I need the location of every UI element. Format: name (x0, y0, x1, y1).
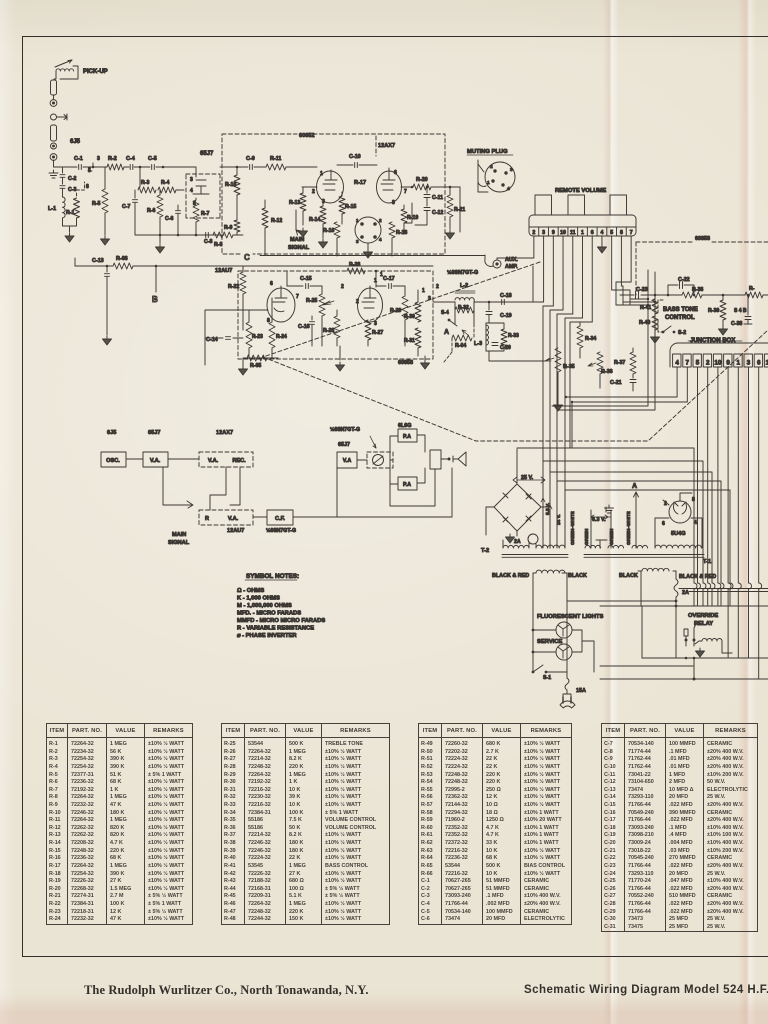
svg-text:SIGNAL: SIGNAL (288, 245, 310, 251)
svg-text:R-26: R-26 (323, 328, 334, 334)
svg-text:V.A.: V.A. (208, 458, 219, 464)
svg-text:GREEN: GREEN (584, 528, 589, 545)
svg-text:L-1: L-1 (48, 206, 56, 212)
svg-text:65J7: 65J7 (338, 442, 350, 448)
svg-text:A: A (632, 483, 637, 490)
svg-text:C-16: C-16 (298, 324, 310, 330)
svg-text:S-4: S-4 (441, 310, 449, 316)
svg-text:BLACK & RED: BLACK & RED (679, 574, 716, 580)
svg-text:11: 11 (570, 230, 576, 236)
svg-text:S-1: S-1 (543, 675, 551, 681)
svg-text:K - 1,000 OHMS: K - 1,000 OHMS (237, 596, 280, 602)
svg-text:⌀ - PHASE INVERTER: ⌀ - PHASE INVERTER (237, 633, 297, 639)
svg-text:C.F.: C.F. (275, 516, 285, 522)
svg-text:R-: R- (749, 286, 755, 292)
svg-text:R-3: R-3 (141, 180, 149, 186)
svg-text:2A: 2A (682, 590, 689, 596)
svg-text:65J7: 65J7 (200, 151, 214, 157)
svg-text:C-3: C-3 (68, 187, 76, 193)
svg-text:A: A (444, 329, 449, 336)
svg-text:R-33: R-33 (508, 333, 519, 339)
svg-text:2: 2 (341, 284, 344, 290)
svg-text:PICK-UP: PICK-UP (83, 69, 108, 75)
svg-text:R-37: R-37 (614, 360, 625, 366)
svg-text:C: C (244, 253, 250, 262)
svg-text:7: 7 (404, 189, 407, 195)
svg-text:7: 7 (686, 360, 690, 367)
svg-text:R-32: R-32 (458, 305, 469, 311)
svg-text:T-1: T-1 (703, 559, 711, 565)
svg-text:R-34: R-34 (585, 336, 596, 342)
svg-text:4: 4 (675, 360, 679, 367)
svg-text:R-13: R-13 (289, 200, 300, 206)
svg-text:R: R (205, 516, 209, 522)
svg-text:C-6: C-6 (165, 216, 173, 222)
svg-text:MAIN: MAIN (290, 237, 304, 243)
svg-text:R-28: R-28 (349, 262, 360, 268)
svg-text:MMFD - MICRO MICRO FARADS: MMFD - MICRO MICRO FARADS (237, 618, 325, 624)
svg-text:10: 10 (560, 230, 566, 236)
svg-text:R-16: R-16 (323, 228, 334, 234)
svg-text:4: 4 (190, 188, 193, 194)
svg-text:R-17: R-17 (354, 180, 366, 186)
svg-text:OSC.: OSC. (106, 458, 120, 464)
svg-text:Ω - OHMS: Ω - OHMS (237, 588, 264, 594)
svg-text:R-7: R-7 (201, 211, 209, 217)
svg-text:C-8: C-8 (204, 239, 212, 245)
svg-text:6: 6 (662, 521, 665, 527)
svg-text:R-39: R-39 (708, 308, 719, 314)
svg-text:C-2: C-2 (68, 176, 76, 182)
svg-text:2: 2 (436, 284, 439, 290)
svg-text:½6SN7GT-G: ½6SN7GT-G (266, 527, 296, 534)
svg-text:R-25: R-25 (306, 298, 317, 304)
svg-text:C-13: C-13 (92, 258, 104, 264)
svg-text:R-41: R-41 (640, 305, 651, 311)
svg-text:R-6: R-6 (147, 208, 155, 214)
svg-text:REC.: REC. (232, 458, 246, 464)
svg-text:3: 3 (190, 177, 193, 183)
svg-text:R-12: R-12 (271, 218, 282, 224)
svg-text:R-36: R-36 (601, 369, 613, 375)
svg-text:SERVICE: SERVICE (537, 639, 562, 645)
svg-text:5U4G: 5U4G (671, 531, 686, 537)
svg-text:3: 3 (374, 321, 377, 327)
svg-text:2A: 2A (514, 539, 521, 545)
svg-text:7: 7 (630, 230, 633, 236)
svg-text:3: 3 (510, 167, 513, 173)
svg-text:C-5: C-5 (148, 156, 157, 162)
svg-text:R-19: R-19 (407, 215, 418, 221)
svg-text:3: 3 (747, 360, 751, 367)
svg-text:GREEN: GREEN (609, 528, 614, 545)
svg-text:R-15: R-15 (345, 204, 356, 210)
svg-text:OVERRIDE: OVERRIDE (688, 613, 718, 619)
svg-text:L-3: L-3 (474, 341, 482, 347)
svg-text:R-31: R-31 (404, 338, 415, 344)
svg-text:BLACK: BLACK (568, 573, 587, 579)
svg-text:C-38: C-38 (731, 321, 742, 327)
svg-text:SIGNAL: SIGNAL (168, 540, 190, 546)
svg-text:C-19: C-19 (500, 313, 512, 319)
svg-text:R-10: R-10 (225, 182, 236, 188)
svg-text:3: 3 (356, 239, 359, 244)
svg-text:R-9: R-9 (224, 225, 232, 231)
svg-text:C-22: C-22 (678, 277, 690, 283)
svg-text:1: 1 (581, 230, 584, 236)
svg-text:10: 10 (714, 360, 722, 367)
svg-text:R-1: R-1 (66, 210, 74, 216)
svg-text:SYMBOL NOTES:: SYMBOL NOTES: (246, 573, 299, 580)
svg-text:AMP.: AMP. (505, 264, 518, 270)
svg-text:C-10: C-10 (349, 154, 361, 160)
svg-text:2: 2 (356, 299, 359, 305)
svg-text:2: 2 (490, 164, 493, 170)
svg-text:C-12: C-12 (432, 210, 443, 216)
svg-text:R-11: R-11 (270, 156, 281, 162)
svg-text:R-30: R-30 (404, 314, 415, 320)
svg-text:12AX7: 12AX7 (216, 430, 233, 436)
svg-text:5: 5 (696, 360, 700, 367)
svg-text:BLACK: BLACK (619, 573, 638, 579)
svg-text:½6SN7GT-G: ½6SN7GT-G (447, 269, 478, 276)
svg-text:C-7: C-7 (122, 204, 130, 210)
svg-text:6J5: 6J5 (70, 139, 81, 145)
svg-text:BASS TONE: BASS TONE (663, 307, 698, 313)
svg-text:3: 3 (97, 156, 100, 162)
svg-text:R-64: R-64 (455, 343, 466, 349)
svg-text:R - VARIABLE RESISTANCE: R - VARIABLE RESISTANCE (237, 626, 314, 632)
svg-text:3: 3 (322, 199, 325, 205)
svg-text:C-20: C-20 (500, 345, 511, 351)
svg-text:C-1: C-1 (74, 156, 83, 162)
svg-text:R-40: R-40 (639, 320, 650, 326)
svg-text:S-2: S-2 (678, 330, 686, 336)
svg-text:MUTING PLUG: MUTING PLUG (467, 149, 508, 155)
svg-text:R-18: R-18 (396, 230, 407, 236)
svg-text:R-2: R-2 (108, 156, 117, 162)
svg-text:C-11: C-11 (432, 195, 443, 201)
svg-text:C-4: C-4 (126, 156, 135, 162)
svg-text:B: B (152, 295, 158, 304)
svg-text:7: 7 (296, 294, 299, 300)
svg-text:C-14: C-14 (206, 337, 218, 343)
svg-text:C-9: C-9 (246, 156, 255, 162)
svg-text:4: 4 (694, 520, 697, 526)
svg-text:C-21: C-21 (610, 380, 622, 386)
svg-text:C-23: C-23 (636, 287, 648, 293)
svg-text:1: 1 (737, 360, 741, 367)
svg-text:6: 6 (394, 170, 397, 176)
svg-text:2: 2 (706, 360, 710, 367)
svg-text:8: 8 (86, 184, 89, 190)
svg-text:6L6G: 6L6G (398, 423, 411, 429)
svg-text:MAIN: MAIN (172, 532, 186, 538)
svg-text:R-23: R-23 (252, 334, 263, 340)
svg-text:R-20: R-20 (416, 177, 428, 183)
svg-text:1: 1 (356, 218, 359, 223)
svg-text:60852: 60852 (299, 133, 315, 139)
svg-text:V.A: V.A (343, 458, 352, 464)
svg-text:R-4: R-4 (161, 180, 169, 186)
svg-text:9: 9 (552, 230, 555, 236)
svg-text:V.A.: V.A. (150, 458, 161, 464)
svg-text:BLACK & RED: BLACK & RED (492, 573, 529, 579)
svg-text:6: 6 (591, 230, 594, 236)
svg-text:GREEN–WHITE: GREEN–WHITE (626, 511, 631, 545)
svg-text:12AU7: 12AU7 (227, 528, 244, 534)
svg-text:T-2: T-2 (481, 548, 489, 554)
svg-text:CONTROL: CONTROL (665, 315, 695, 321)
svg-text:R-14: R-14 (309, 217, 320, 223)
svg-text:FLUORESCENT LIGHTS: FLUORESCENT LIGHTS (537, 614, 603, 620)
svg-text:1: 1 (487, 180, 490, 186)
svg-text:M - 1,000,000 OHMS: M - 1,000,000 OHMS (237, 603, 292, 609)
svg-text:C-15: C-15 (300, 276, 312, 282)
svg-text:12AU7: 12AU7 (215, 268, 232, 274)
svg-text:60858: 60858 (398, 360, 413, 366)
svg-text:R-24: R-24 (276, 334, 287, 340)
svg-text:6J5: 6J5 (107, 430, 116, 436)
svg-text:MFD. - MICRO FARADS: MFD. - MICRO FARADS (237, 611, 301, 617)
svg-text:15A: 15A (576, 688, 586, 694)
svg-text:REMOTE VOLUME: REMOTE VOLUME (555, 188, 606, 194)
svg-text:5: 5 (193, 201, 196, 207)
svg-text:8: 8 (692, 497, 695, 503)
svg-text:2: 2 (312, 189, 315, 195)
svg-text:5: 5 (610, 230, 613, 236)
svg-text:6: 6 (757, 360, 761, 367)
svg-text:R-22: R-22 (228, 284, 239, 290)
svg-text:2: 2 (532, 230, 535, 236)
svg-text:R-66: R-66 (116, 256, 128, 262)
svg-text:24 V.: 24 V. (556, 514, 562, 525)
svg-text:65J7: 65J7 (148, 430, 160, 436)
svg-text:V.A.: V.A. (228, 516, 239, 522)
svg-text:9: 9 (726, 360, 730, 367)
svg-text:3: 3 (428, 296, 431, 302)
svg-text:8: 8 (392, 200, 395, 206)
svg-text:R-8: R-8 (214, 242, 222, 248)
svg-text:P.A: P.A (403, 482, 411, 488)
svg-text:4: 4 (507, 186, 510, 192)
svg-text:½6SN7GT-G: ½6SN7GT-G (330, 426, 360, 433)
svg-text:R-35: R-35 (563, 364, 575, 370)
svg-text:2: 2 (379, 218, 382, 223)
svg-text:1: 1 (320, 171, 323, 177)
svg-text:60858: 60858 (695, 236, 710, 242)
svg-text:R-5: R-5 (92, 201, 100, 207)
svg-text:4: 4 (379, 237, 382, 242)
svg-text:1: 1 (374, 278, 377, 284)
svg-text:S 4 B: S 4 B (734, 308, 747, 314)
svg-text:8: 8 (620, 230, 623, 236)
svg-text:P.A: P.A (403, 434, 411, 440)
svg-text:R-27: R-27 (372, 330, 383, 336)
svg-text:6.3 V.: 6.3 V. (592, 517, 606, 523)
svg-text:R-38: R-38 (692, 287, 703, 293)
svg-text:1: 1 (422, 288, 425, 294)
svg-text:6: 6 (270, 281, 273, 287)
svg-text:12AX7: 12AX7 (378, 143, 395, 149)
svg-text:R-65: R-65 (250, 363, 261, 369)
svg-text:C-18: C-18 (500, 293, 512, 299)
svg-text:3: 3 (542, 230, 545, 236)
svg-text:GREEN–WHITE: GREEN–WHITE (570, 511, 575, 545)
svg-text:C-17: C-17 (383, 276, 395, 282)
svg-text:4: 4 (601, 230, 604, 236)
